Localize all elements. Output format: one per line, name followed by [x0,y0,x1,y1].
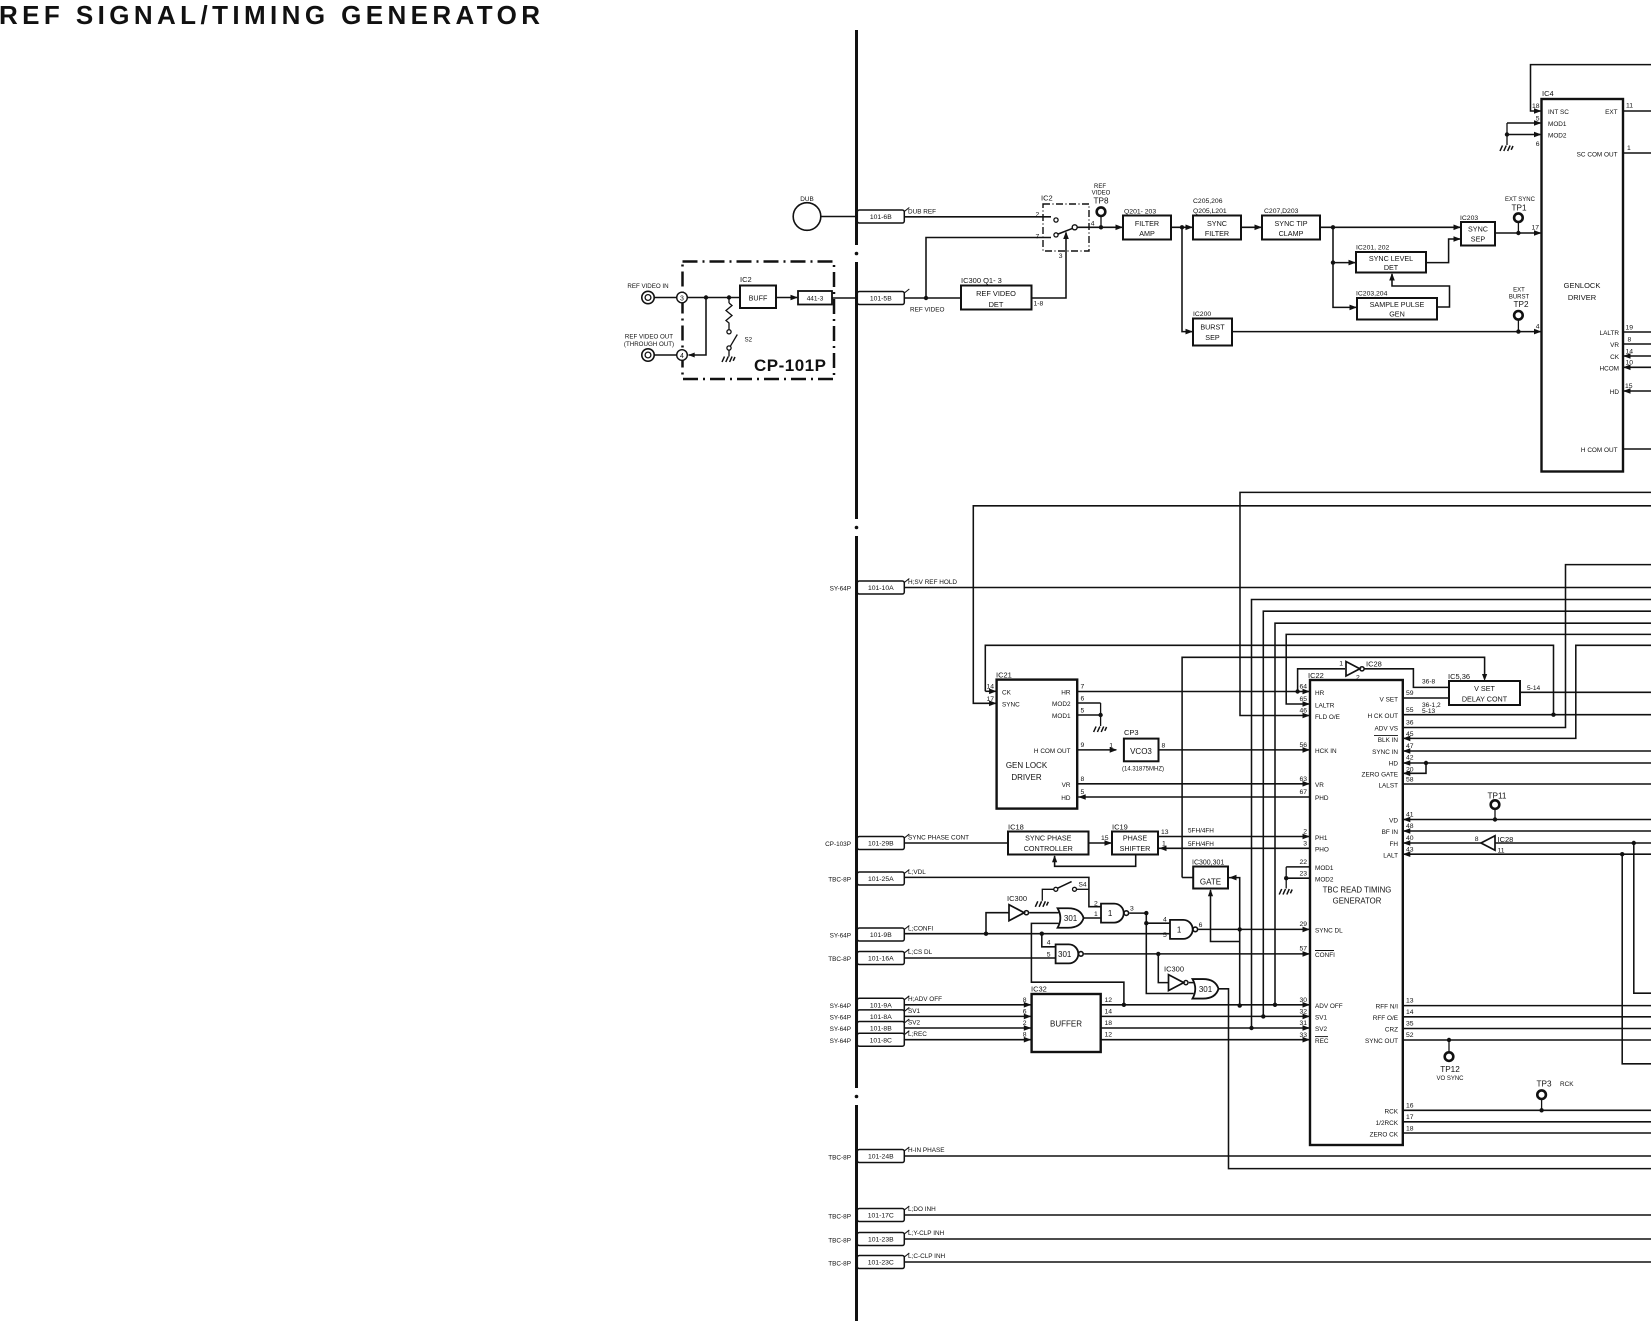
svg-text:TBC READ TIMING: TBC READ TIMING [1323,886,1392,895]
svg-text:14: 14 [1406,1009,1414,1016]
svg-text:BF IN: BF IN [1382,829,1399,836]
svg-text:1: 1 [1162,841,1166,848]
svg-text:RCK: RCK [1560,1081,1574,1088]
svg-text:EXT SYNC: EXT SYNC [1505,197,1536,203]
wire H;SV REF HOLD to right edge [904,587,1651,589]
node CONFI tee to inverter [984,932,988,936]
wire tee down to NAND301 pin4 [1042,934,1056,947]
svg-text:13: 13 [1161,829,1169,836]
wire inverter out to OR301 [1029,912,1058,914]
svg-text:CP-103P: CP-103P [825,841,851,848]
wire BURST SEP out to IC4 pin4 [1232,331,1541,333]
wire 441-3 to connector 101-5B [832,297,858,299]
svg-text:13: 13 [1406,997,1414,1004]
svg-text:6: 6 [1536,141,1540,148]
svg-text:RFF O/E: RFF O/E [1373,1015,1398,1022]
svg-text:SV1: SV1 [1315,1015,1328,1022]
svg-text:HCK IN: HCK IN [1315,748,1337,755]
wire BLK IN from right edge [1404,645,1651,738]
svg-text:101-24B: 101-24B [868,1154,894,1161]
svg-text:L;CS DL: L;CS DL [908,949,933,956]
svg-text:IC18: IC18 [1008,823,1024,832]
wire SYNC FILTER to SYNC TIP CLAMP [1241,226,1261,228]
svg-text:REF: REF [1094,184,1106,190]
svg-text:1: 1 [1109,743,1113,750]
svg-text:101-8C: 101-8C [870,1037,892,1044]
svg-text:ZERO GATE: ZERO GATE [1362,772,1398,779]
or-gate 301 lower [1193,979,1219,999]
svg-text:MOD2: MOD2 [1052,701,1071,708]
wire IC22 PHO to IC19 pin1 5FH/4FH [1159,847,1310,849]
svg-text:55: 55 [1406,707,1414,714]
svg-text:17: 17 [986,696,994,703]
svg-text:IC28: IC28 [1366,660,1382,669]
svg-text:(THROUGH OUT): (THROUGH OUT) [624,341,674,348]
svg-text:GEN: GEN [1389,310,1405,319]
svg-text:TP2: TP2 [1513,300,1528,309]
svg-text:Q201- 203: Q201- 203 [1124,209,1156,216]
svg-text:L;Y-CLP INH: L;Y-CLP INH [908,1230,945,1237]
svg-text:SY-64P: SY-64P [830,1026,851,1033]
svg-text:DET: DET [1384,263,1399,272]
wire NAND2 out to IC22 SYNC DL [1198,928,1309,930]
svg-text:12: 12 [1105,1032,1113,1039]
wire jack3 to pin3 [654,297,677,299]
svg-text:SYNC: SYNC [1002,702,1020,709]
svg-text:H COM OUT: H COM OUT [1034,748,1071,755]
svg-text:101-23B: 101-23B [868,1237,894,1244]
svg-text:L;VDL: L;VDL [908,869,926,876]
svg-text:EXT: EXT [1513,288,1525,294]
svg-text:18: 18 [1406,1126,1414,1133]
svg-text:SYNC LEVEL: SYNC LEVEL [1369,254,1413,263]
svg-text:2: 2 [1094,901,1098,908]
svg-text:SHIFTER: SHIFTER [1120,844,1151,853]
node TP1 junction [1516,231,1520,235]
connector 101-5B [857,292,904,305]
svg-text:DUB: DUB [800,196,814,203]
wire SYNC PHASE CONT to IC18 [904,842,1008,844]
svg-text:IC201, 202: IC201, 202 [1356,245,1389,252]
svg-text:31: 31 [1299,1020,1307,1027]
svg-text:C205,206: C205,206 [1193,198,1223,205]
svg-text:IC28: IC28 [1498,835,1514,844]
wire DUB REF to IC2 switch pin2 [904,216,1051,218]
svg-text:45: 45 [1406,731,1414,738]
svg-text:CONTROLLER: CONTROLLER [1024,844,1073,853]
svg-text:CONFI: CONFI [1315,952,1335,959]
wire FLD O/E net corner to right edge [1240,492,1651,715]
svg-text:29: 29 [1299,921,1307,928]
svg-text:PHASE: PHASE [1123,834,1148,843]
testpoint TP12 VO SYNC [1447,1038,1451,1042]
wire S4 to L;VDL net [1077,888,1089,890]
wire pin3 branch down to pin4 [689,298,707,356]
svg-text:PHO: PHO [1315,847,1329,854]
svg-text:SYNC PHASE: SYNC PHASE [1025,834,1072,843]
wire IC22 MOD stubs and ground [1286,866,1310,868]
wire LALT branch down to right edge [1622,854,1651,1064]
svg-text:REF VIDEO IN: REF VIDEO IN [627,283,668,290]
svg-text:101-9B: 101-9B [870,932,892,939]
svg-text:2: 2 [1356,675,1360,682]
wire L;VDL to NAND IC300 pin2 [904,877,1101,906]
svg-text:TP12: TP12 [1440,1065,1460,1074]
svg-text:101-5B: 101-5B [870,296,892,303]
svg-text:GATE: GATE [1200,877,1221,886]
svg-text:63: 63 [1299,776,1307,783]
svg-text:101-25A: 101-25A [868,876,894,883]
node TP8 junction [1099,225,1103,229]
wire L;DO INH to right edge [904,1214,1651,1216]
svg-text:TP11: TP11 [1488,792,1507,801]
svg-text:3: 3 [1059,253,1063,260]
wire ADV VS up to right edge [1403,565,1651,728]
svg-text:15: 15 [1101,835,1109,842]
svg-text:REF VIDEO: REF VIDEO [976,289,1016,298]
svg-text:36: 36 [1406,720,1414,727]
svg-text:18: 18 [1532,103,1540,110]
svg-text:VR: VR [1062,782,1071,789]
svg-text:SYNC DL: SYNC DL [1315,928,1343,935]
svg-text:101-6B: 101-6B [870,214,892,221]
svg-text:65: 65 [1299,696,1307,703]
node CONFI tee to NAND301 pin4 [1040,932,1044,936]
connector REF VIDEO OUT jack [642,349,654,361]
testpoint TP11 [1493,817,1497,821]
svg-text:30: 30 [1299,997,1307,1004]
svg-text:301: 301 [1058,950,1072,959]
svg-text:3: 3 [680,295,684,302]
wire lower inverter out to OR301 lower [1189,982,1194,984]
svg-text:441-3: 441-3 [807,295,824,302]
svg-text:TBC-8P: TBC-8P [828,1237,851,1244]
svg-text:14: 14 [986,684,994,691]
svg-text:8: 8 [1162,743,1166,750]
svg-text:L;CONFI: L;CONFI [908,926,933,933]
svg-text:TBC-8P: TBC-8P [828,1213,851,1220]
svg-text:32: 32 [1299,1009,1307,1016]
connector 101-6B [857,210,904,223]
svg-text:42: 42 [1406,754,1414,761]
wire FILTER AMP to SYNC FILTER [1171,226,1192,228]
svg-text:1: 1 [1094,911,1098,918]
wire REF VIDEO to det [904,297,961,299]
wire BUFF to 441-3 [776,297,797,299]
wire H-IN PHASE to right edge [904,1155,1651,1157]
svg-text:SYNC OUT: SYNC OUT [1365,1038,1398,1045]
svg-text:14: 14 [1626,349,1634,356]
svg-text:SY-64P: SY-64P [830,1015,851,1022]
wire tee up to IC300 inverter input [986,913,1009,934]
svg-text:101-8B: 101-8B [870,1026,892,1033]
svg-text:HCOM: HCOM [1599,366,1619,373]
svg-text:19: 19 [1626,325,1634,332]
svg-text:MOD1: MOD1 [1052,713,1071,720]
wire IC19 feedback to IC18 [1055,855,1136,867]
svg-text:9: 9 [1081,742,1085,749]
svg-text:IC300,301: IC300,301 [1192,860,1224,867]
board CP-101P dash-dot outline [683,262,835,380]
svg-text:SYNC IN: SYNC IN [1372,749,1398,756]
svg-text:LALST: LALST [1378,782,1398,789]
svg-text:IC2: IC2 [1041,194,1053,203]
svg-text:1: 1 [1108,909,1113,918]
svg-text:8: 8 [1023,1032,1027,1039]
svg-text:IC21: IC21 [996,671,1012,680]
svg-text:SYNC TIP: SYNC TIP [1274,219,1307,228]
svg-text:IC5,36: IC5,36 [1448,672,1470,681]
svg-text:8: 8 [1023,997,1027,1004]
wire ADV OFF staircase [1275,623,1651,1005]
svg-text:IC300: IC300 [1007,894,1027,903]
svg-text:58: 58 [1406,776,1414,783]
wire L;C-CLP INH to right edge [904,1261,1651,1263]
wire L;CONFI to NAND pin5 [904,933,1170,935]
svg-text:TP3: TP3 [1536,1080,1551,1089]
svg-text:SYNC: SYNC [1207,219,1227,228]
svg-text:HR: HR [1061,689,1071,696]
nand gate 301 lower-left [1056,944,1079,963]
svg-text:SY-64P: SY-64P [830,1003,851,1010]
svg-text:5: 5 [1163,932,1167,939]
node sync level tee [1331,225,1335,229]
svg-text:ADV VS: ADV VS [1375,726,1398,733]
svg-text:16: 16 [1406,1103,1414,1110]
wire SYNC LEVEL DET out to SYNC SEP in2 [1426,239,1460,263]
wire GATE bottom input branch [1211,890,1240,942]
wire ADV OFF net up to OR301 input [1031,923,1124,1004]
wire SV2 staircase [1252,600,1651,1029]
svg-text:IC2: IC2 [740,275,752,284]
svg-text:11: 11 [1626,103,1633,110]
svg-text:VR: VR [1315,782,1324,789]
switch contact pin7 [1054,233,1058,237]
wire OR301 out to NAND1 pin1 [1083,917,1101,919]
svg-text:IC4: IC4 [1542,89,1554,98]
block 441-3 delay [798,291,832,305]
svg-text:36-8: 36-8 [1422,679,1436,686]
svg-text:18: 18 [1105,1020,1113,1027]
svg-text:LALTR: LALTR [1315,702,1335,709]
svg-text:IC203: IC203 [1460,215,1478,222]
svg-text:H CK OUT: H CK OUT [1367,713,1398,720]
wire tee down to IC300 lower inverter [1158,954,1168,983]
svg-text:V SET: V SET [1380,696,1399,703]
svg-text:15: 15 [1625,383,1633,390]
svg-text:12: 12 [1105,997,1113,1004]
pin 4 board edge [677,350,688,361]
wire LALTR staircase to IC22 [1286,634,1651,704]
svg-text:ZERO CK: ZERO CK [1370,1132,1399,1139]
wire SYNC TIP CLAMP to SYNC SEP [1320,226,1460,228]
svg-text:TBC-8P: TBC-8P [828,1154,851,1161]
switch lever [1058,228,1072,234]
svg-text:5FH/4FH: 5FH/4FH [1188,828,1214,835]
svg-text:CRZ: CRZ [1385,1027,1398,1034]
svg-text:EXT: EXT [1605,109,1618,116]
svg-text:1: 1 [1339,661,1343,668]
svg-text:7: 7 [1081,684,1085,691]
node TP2 junction [1516,329,1520,333]
svg-text:IC300: IC300 [1164,965,1184,974]
wire NAND301 out to IC22 CONFI [1084,953,1309,955]
svg-text:1: 1 [1177,925,1182,934]
svg-text:4: 4 [1091,220,1095,227]
svg-text:REF VIDEO OUT: REF VIDEO OUT [625,334,673,341]
svg-text:BLK IN: BLK IN [1378,737,1399,744]
svg-text:6: 6 [1081,696,1085,703]
svg-text:(14.31875MHZ): (14.31875MHZ) [1122,767,1164,773]
svg-text:8: 8 [1081,776,1085,783]
wire SYNC net to IC21 from right edge [973,506,1651,704]
svg-text:ADV OFF: ADV OFF [1315,1003,1343,1010]
svg-text:V SET: V SET [1474,684,1495,693]
or-gate 301 upper [1058,908,1084,928]
svg-text:SV2: SV2 [1315,1026,1328,1033]
svg-text:101-10A: 101-10A [868,585,894,592]
svg-text:PH1: PH1 [1315,835,1328,842]
connector REF VIDEO IN jack [642,291,654,303]
svg-text:IC300 Q1- 3: IC300 Q1- 3 [961,276,1002,285]
svg-text:TBC-8P: TBC-8P [828,956,851,963]
svg-text:CLAMP: CLAMP [1279,229,1304,238]
svg-text:IC22: IC22 [1308,671,1324,680]
svg-text:4: 4 [1536,324,1540,331]
svg-text:IC19: IC19 [1112,823,1128,832]
svg-text:DRIVER: DRIVER [1568,293,1597,302]
svg-text:301: 301 [1199,985,1213,994]
wire FH branch down to right edge [1634,843,1651,993]
ground below S2 [728,350,730,356]
wire IC32 out12 to IC22 ADV OFF [1101,1004,1309,1006]
wire HR to IC28 inverter [1298,669,1345,692]
switch contact pin2 [1054,218,1058,222]
svg-text:VCO3: VCO3 [1130,747,1152,756]
svg-text:1-8: 1-8 [1034,301,1044,308]
wire DET output up to switch pin3 [1032,233,1067,299]
testpoint TP8 [1097,207,1106,216]
wire IC32 out12b to IC22 REC [1101,1039,1309,1041]
svg-text:MOD1: MOD1 [1548,121,1567,128]
svg-text:14: 14 [1105,1008,1113,1015]
svg-text:52: 52 [1406,1032,1414,1039]
wire NAND1 out down to NAND2 pin4 and OR301 lower [1130,913,1194,993]
pin 3 board edge [677,292,688,303]
svg-text:35: 35 [1406,1021,1414,1028]
svg-text:TBC-8P: TBC-8P [828,1260,851,1267]
svg-text:57: 57 [1299,945,1307,952]
svg-text:FILTER: FILTER [1135,219,1159,228]
svg-text:8: 8 [1475,836,1479,843]
svg-text:11: 11 [1498,847,1505,854]
wire tee up to IC2 switch pin7 [926,238,1051,299]
svg-text:LALT: LALT [1383,852,1398,859]
testpoint TP2 EXT BURST [1514,311,1523,320]
svg-text:CK: CK [1610,354,1620,361]
svg-text:REC: REC [1315,1038,1329,1045]
svg-text:CK: CK [1002,689,1012,696]
svg-text:SAMPLE PULSE: SAMPLE PULSE [1370,300,1425,309]
svg-text:7: 7 [1036,234,1040,241]
nand gate 1 (IC1) first [1101,904,1124,923]
svg-text:H-IN PHASE: H-IN PHASE [908,1147,945,1154]
node REF VIDEO tee [924,296,928,300]
svg-text:SV2: SV2 [908,1020,921,1027]
svg-text:SEP: SEP [1205,333,1220,342]
wire NAND2 pin4 [1146,922,1170,924]
svg-text:S2: S2 [745,337,753,344]
svg-text:GENLOCK: GENLOCK [1564,281,1601,290]
wire pin3 to IC2 buff [687,297,740,299]
svg-text:17: 17 [1531,225,1539,232]
wire pole to FILTER AMP [1077,226,1122,228]
svg-text:6: 6 [1199,922,1203,929]
wire CK net IC21 to HCK OUT junction [985,645,1553,714]
wire L;REC to IC32 [904,1039,1030,1041]
svg-text:FLD O/E: FLD O/E [1315,714,1340,721]
switch S2 [727,330,731,334]
svg-text:1/2RCK: 1/2RCK [1376,1120,1399,1127]
svg-text:C207,D203: C207,D203 [1264,208,1299,215]
svg-text:56: 56 [1299,742,1307,749]
ground S4 [1042,889,1054,901]
svg-text:101-29B: 101-29B [868,841,894,848]
svg-text:BUFF: BUFF [749,294,768,303]
svg-text:GENERATOR: GENERATOR [1333,897,1382,906]
wire GATE net to V SET DELAY CONT [1182,657,1485,877]
svg-text:22: 22 [1299,859,1307,866]
svg-text:L;C-CLP INH: L;C-CLP INH [908,1253,946,1260]
svg-text:SY-64P: SY-64P [830,1038,851,1045]
svg-text:SY-64P: SY-64P [830,585,851,592]
ground IC21 MOD [1100,703,1102,726]
wire SV1 to IC32 [904,1015,1030,1017]
svg-text:IC203,204: IC203,204 [1356,291,1388,298]
svg-text:5: 5 [1081,708,1085,715]
wire IC19 pin13 5FH/4FH to IC22 PH1 [1158,836,1309,838]
svg-text:DUB REF: DUB REF [908,209,936,216]
svg-text:2: 2 [1303,829,1307,836]
wire INT SC feed from top right [1531,65,1651,111]
svg-text:5: 5 [1536,116,1540,123]
svg-text:301: 301 [1064,914,1078,923]
svg-text:MOD1: MOD1 [1315,865,1334,872]
svg-text:59: 59 [1406,690,1414,697]
svg-text:2: 2 [1036,212,1040,219]
wire tee down to level det and sample gen [1333,227,1356,307]
wire OR301 lower out down to bottom right edge [1218,989,1651,1169]
svg-text:VR: VR [1610,342,1619,349]
svg-text:46: 46 [1299,708,1307,715]
svg-text:SY-64P: SY-64P [830,932,851,939]
wire SV2 to IC32 [904,1027,1030,1029]
svg-text:FH: FH [1389,841,1398,848]
wire H;ADV OFF to IC32 [904,1004,1030,1006]
svg-text:S4: S4 [1079,882,1087,889]
svg-text:HD: HD [1389,760,1399,767]
svg-text:1: 1 [1627,145,1631,152]
svg-text:GEN LOCK: GEN LOCK [1006,761,1048,770]
svg-text:FILTER: FILTER [1205,229,1229,238]
node CONFI inverter tee [1156,952,1160,956]
svg-text:101-16A: 101-16A [868,956,894,963]
svg-text:5-14: 5-14 [1527,685,1541,692]
svg-text:SYNC: SYNC [1468,225,1488,234]
svg-text:VD: VD [1389,817,1398,824]
svg-text:IC200: IC200 [1193,311,1211,318]
svg-text:67: 67 [1299,789,1307,796]
